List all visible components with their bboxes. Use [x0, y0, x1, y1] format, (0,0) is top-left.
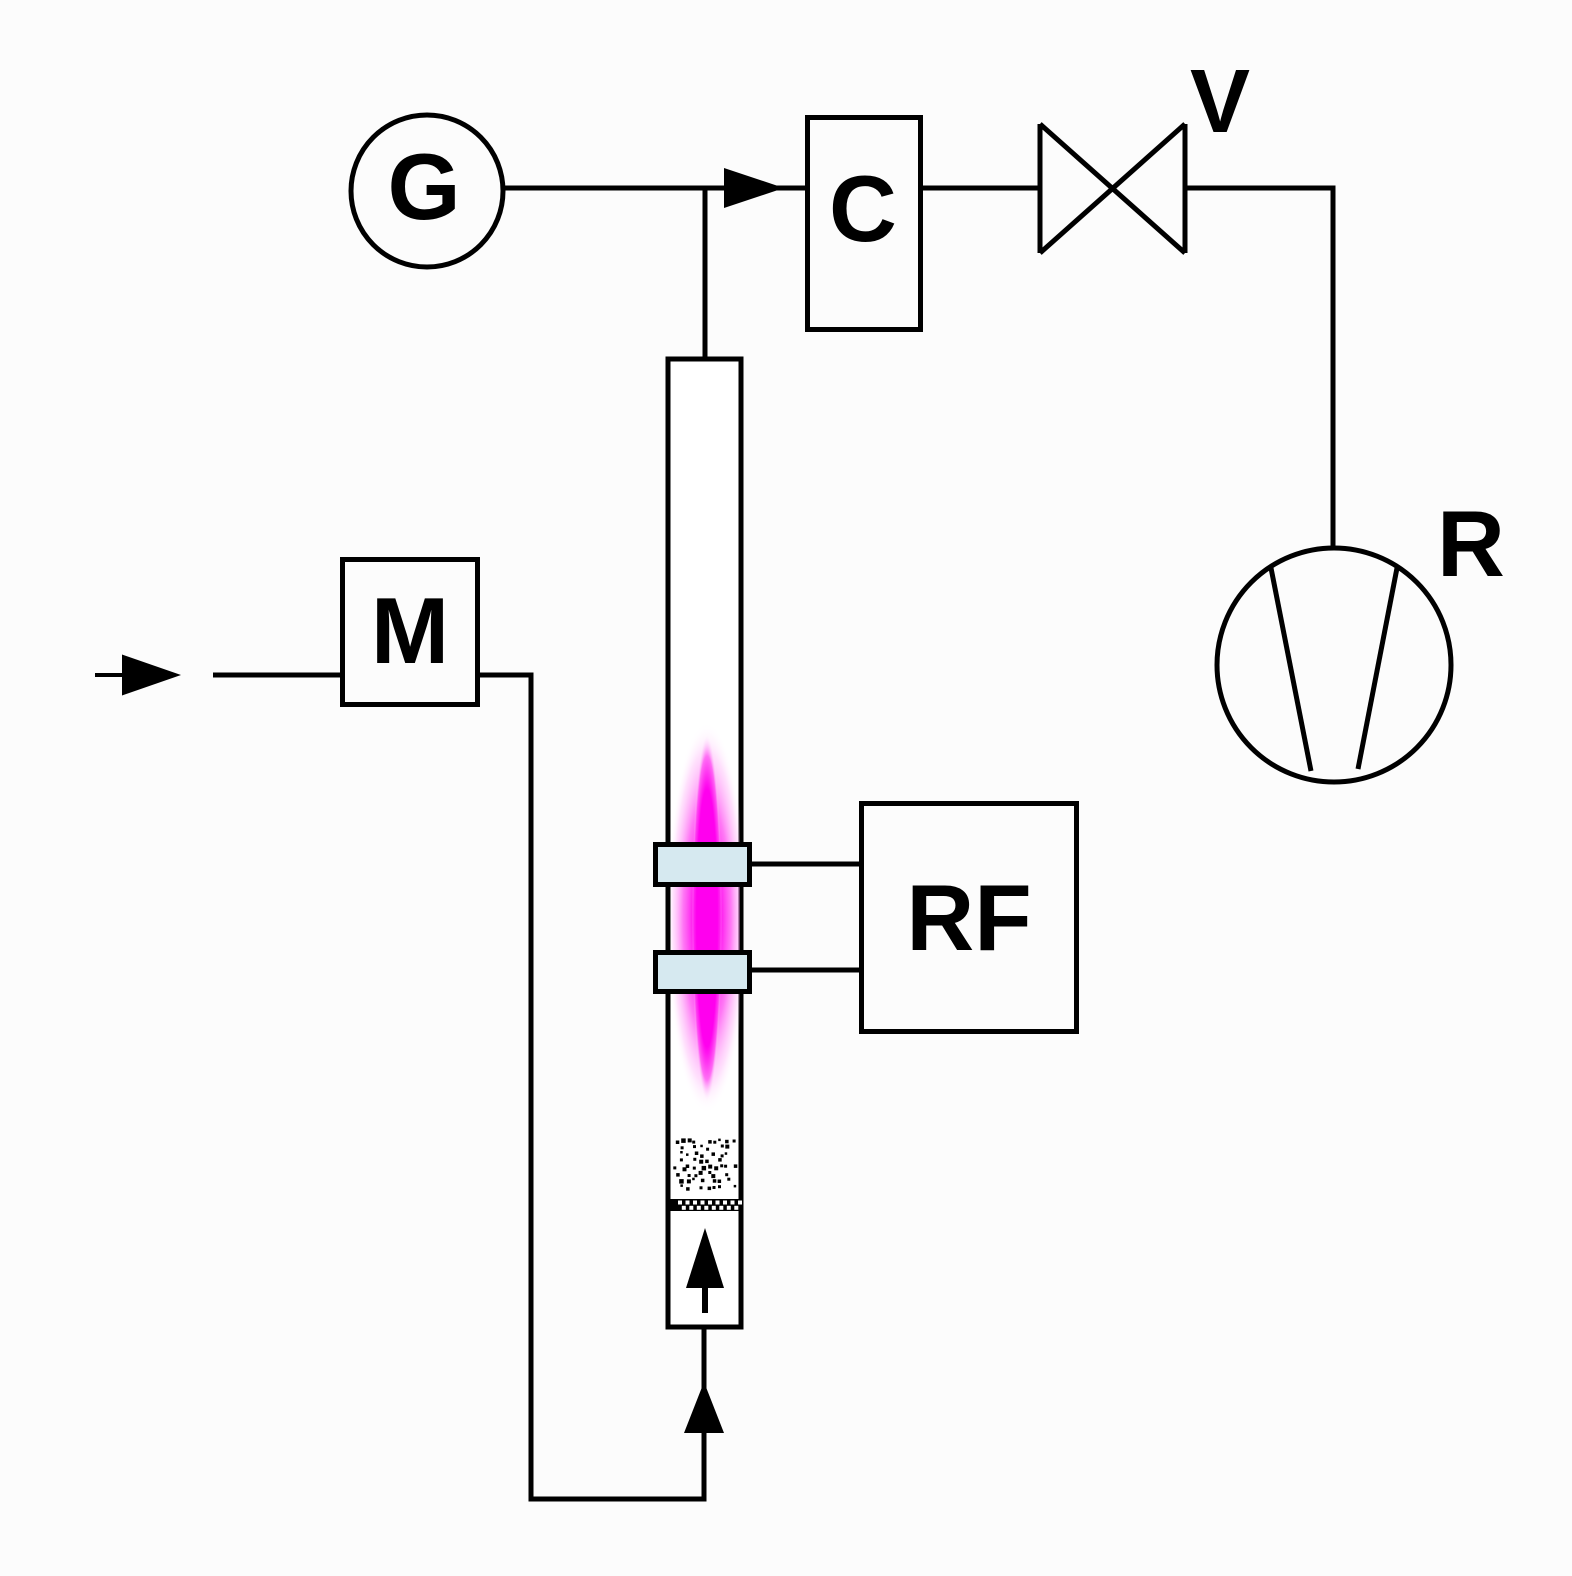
frit support band	[668, 1199, 742, 1211]
wire junction down to tube top	[703, 188, 708, 359]
plasma glow	[667, 722, 747, 1114]
wire C to valve	[923, 186, 1040, 191]
svg-text:G: G	[387, 134, 460, 239]
wire G to junction to C	[501, 186, 807, 191]
pump R vane right	[1358, 568, 1397, 769]
reactor tube	[668, 359, 741, 1327]
gauge G circle	[351, 115, 503, 267]
wire corner down to pump R	[1331, 186, 1336, 550]
wire M right	[480, 673, 534, 678]
wire electrode upper to RF	[752, 862, 861, 867]
arrowhead into C	[724, 168, 784, 208]
electrode upper	[656, 845, 750, 885]
svg-text:C: C	[829, 156, 897, 261]
svg-text:V: V	[1190, 52, 1250, 152]
wire inlet to M	[213, 673, 342, 678]
wire electrode lower to RF	[752, 968, 861, 973]
wire bottom leg	[531, 1497, 707, 1502]
box RF	[862, 804, 1077, 1032]
catalyst bed dots	[673, 1138, 737, 1190]
box C	[808, 118, 921, 330]
wire valve to corner	[1185, 186, 1336, 191]
wire up to tube bottom	[702, 1329, 707, 1502]
pump R circle	[1217, 548, 1451, 782]
arrowhead up into tube	[684, 1382, 724, 1433]
flow arrow inside tube	[686, 1228, 724, 1313]
valve V	[1040, 124, 1185, 253]
inlet wire stub	[95, 673, 124, 677]
pump R vane left	[1271, 568, 1311, 771]
svg-text:RF: RF	[906, 865, 1031, 970]
svg-text:M: M	[371, 578, 449, 683]
wire down left leg	[529, 673, 534, 1502]
box M	[343, 560, 478, 705]
svg-text:R: R	[1437, 491, 1505, 596]
inlet arrowhead	[122, 655, 181, 696]
electrode lower	[656, 953, 750, 992]
